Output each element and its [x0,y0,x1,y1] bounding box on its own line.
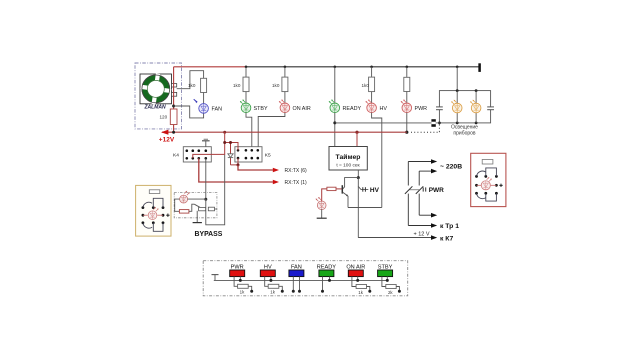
svg-text:1k: 1k [240,290,245,295]
svg-text:1k0: 1k0 [188,83,196,88]
svg-text:1k0: 1k0 [233,83,241,88]
svg-text:STBY: STBY [254,106,268,112]
svg-text:HV: HV [380,106,388,112]
svg-text:STBY: STBY [378,264,393,270]
svg-text:RX:TX (6): RX:TX (6) [285,168,308,174]
svg-text:+12V: +12V [159,136,175,143]
svg-text:2k: 2k [388,290,393,295]
svg-text:PWR: PWR [415,106,428,112]
svg-text:ZALMAN: ZALMAN [144,105,166,111]
svg-text:READY: READY [317,264,337,270]
svg-text:PWR: PWR [429,187,444,194]
svg-text:1k0: 1k0 [362,83,370,88]
svg-text:PWR: PWR [231,264,244,270]
svg-text:FAN: FAN [212,107,223,113]
svg-text:ON AIR: ON AIR [346,264,365,270]
svg-text:BYPASS: BYPASS [195,231,223,238]
svg-text:1k: 1k [358,290,363,295]
svg-text:120: 120 [160,114,168,119]
svg-text:t = 100 сек: t = 100 сек [336,163,360,169]
svg-text:1k0: 1k0 [272,83,280,88]
svg-text:HV: HV [264,264,272,270]
svg-text:+ 12 V: + 12 V [414,232,430,238]
svg-text:к Тр 1: к Тр 1 [440,223,459,230]
svg-text:HV: HV [370,187,380,194]
svg-text:K5: K5 [265,153,271,159]
svg-text:RX:TX (1): RX:TX (1) [285,180,308,186]
svg-text:приборов: приборов [453,131,475,137]
svg-text:READY: READY [343,106,362,112]
svg-text:K4: K4 [173,153,179,159]
svg-text:FAN: FAN [291,264,302,270]
svg-text:1k: 1k [270,290,275,295]
svg-text:~ 220В: ~ 220В [440,163,462,170]
svg-text:Таймер: Таймер [336,153,361,161]
svg-text:к К7: к К7 [440,236,453,243]
svg-text:ON AIR: ON AIR [293,106,311,112]
